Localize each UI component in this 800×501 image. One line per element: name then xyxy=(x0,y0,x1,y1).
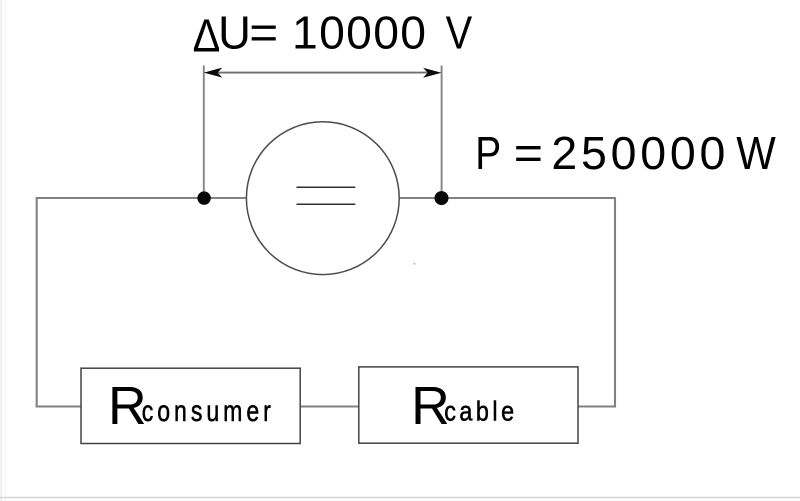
svg-text:consumer: consumer xyxy=(142,394,275,427)
voltage source circle xyxy=(246,122,399,275)
node dot right xyxy=(435,191,449,205)
DC symbol line top xyxy=(297,186,356,188)
resistor box R cable xyxy=(359,367,578,443)
extension line right (x=441.6) xyxy=(441,66,443,194)
svg-text:W: W xyxy=(736,128,776,180)
svg-text:U: U xyxy=(218,7,251,59)
wire: bottom-left horizontal into R consumer xyxy=(36,405,82,407)
svg-text:10000: 10000 xyxy=(292,7,426,59)
bottom light rule xyxy=(0,497,800,499)
arrowhead left xyxy=(204,68,223,78)
svg-text:R: R xyxy=(108,377,147,436)
resistor box R consumer xyxy=(81,368,300,443)
svg-text:Δ: Δ xyxy=(193,10,221,62)
svg-text:=: = xyxy=(514,127,543,179)
extension line left (x=203.8) xyxy=(203,66,205,194)
label: delta-U = 10000 V xyxy=(193,7,473,62)
svg-text:=: = xyxy=(249,8,278,59)
wire: top-left horizontal from left branch to source xyxy=(36,197,248,199)
DC symbol line bottom xyxy=(297,203,356,205)
speck artifact xyxy=(413,263,415,265)
dimension arrow shaft xyxy=(212,72,433,74)
svg-text:P: P xyxy=(475,128,501,180)
arrowhead right xyxy=(423,68,442,78)
node dot left xyxy=(197,191,210,204)
wire: top-right horizontal from source to right branch xyxy=(398,197,616,199)
svg-text:V: V xyxy=(446,8,473,59)
wire: horizontal between R consumer and R cable xyxy=(300,405,359,407)
wire: right vertical branch xyxy=(614,198,616,408)
label: P = 250000 W xyxy=(475,127,776,180)
wire: left vertical branch xyxy=(36,197,38,408)
svg-text:cable: cable xyxy=(444,397,517,427)
edge artifact left xyxy=(0,0,2,501)
wire: bottom-right horizontal from R cable xyxy=(578,405,616,407)
